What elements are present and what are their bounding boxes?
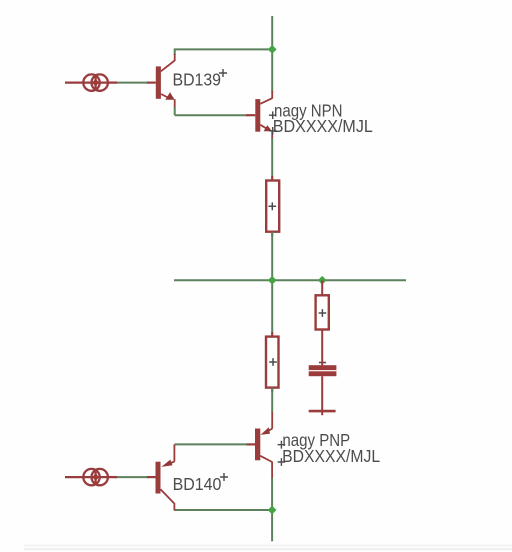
wire PNP collector down net <box>271 478 273 541</box>
resistor R3 <box>266 332 279 392</box>
svg-text:BD140: BD140 <box>173 474 222 494</box>
transistor nagy NPN <box>246 91 272 139</box>
wire BD140 emitter to PNP base net <box>174 443 247 445</box>
origin cross R2 <box>319 309 327 317</box>
origin cross BD140 <box>220 473 228 481</box>
origin cross nagy PNP name <box>278 441 286 449</box>
transistor BD139 <box>147 54 175 108</box>
transistor nagy PNP <box>246 412 272 479</box>
origin cross nagy NPN value <box>269 127 277 135</box>
origin cross C1 <box>319 362 326 364</box>
origin cross BD139 <box>219 69 227 77</box>
wire R3 to PNP emitter <box>271 388 273 413</box>
wire R1 to mid rail <box>271 232 273 281</box>
wire top vertical feed net <box>271 16 273 92</box>
wire BD139 emitter to NPN base net <box>175 107 247 115</box>
bottom frame line 2 <box>24 548 512 550</box>
transistor BD140 <box>147 444 174 510</box>
resistor R2 <box>316 280 329 329</box>
junction dot bottom rail <box>268 506 277 515</box>
origin cross nagy PNP value <box>278 458 286 466</box>
origin cross R1 <box>269 202 277 210</box>
svg-text:BDXXXX/MJL: BDXXXX/MJL <box>282 446 380 466</box>
origin cross R3 <box>269 358 277 366</box>
junction dot mid rail right <box>318 276 327 285</box>
bottom frame line 1 <box>24 545 512 547</box>
wire NPN emitter to R1 <box>271 138 273 181</box>
wire BD140 collector net horizontal <box>174 509 272 511</box>
origin cross nagy NPN name <box>269 111 277 119</box>
wire CS1 to BD139 base net <box>115 82 149 84</box>
ground symbol GND <box>309 410 336 413</box>
wire CS2 to BD140 base net <box>115 476 149 478</box>
current source CS2 <box>65 469 117 485</box>
svg-text:BDXXXX/MJL: BDXXXX/MJL <box>273 116 373 136</box>
wire mid rail down to R3 <box>271 280 273 336</box>
wire BD139 collector net horizontal <box>175 49 273 55</box>
current source CS1 <box>65 74 117 90</box>
junction dot at top rail <box>268 45 277 54</box>
capacitor C1 <box>309 330 337 416</box>
junction dot mid rail left <box>268 276 277 285</box>
resistor R1 <box>266 176 279 236</box>
wire mid rail horizontal net <box>174 279 406 281</box>
svg-text:BD139: BD139 <box>173 70 222 90</box>
